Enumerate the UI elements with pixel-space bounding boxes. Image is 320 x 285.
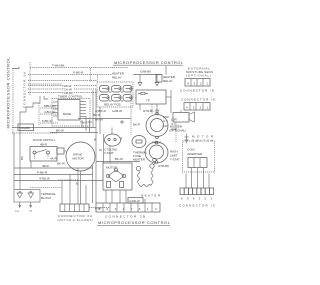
svg-text:MICROPROCESSOR CONTROL: MICROPROCESSOR CONTROL [114,60,184,65]
svg-text:BK-W: BK-W [115,157,123,161]
svg-text:MICROPROCESSOR CONTROL: MICROPROCESSOR CONTROL [98,220,171,225]
svg-text:T-STAT: T-STAT [170,158,180,162]
svg-text:4A-R: 4A-R [50,157,58,161]
svg-text:(MOTOR & BLOWER): (MOTOR & BLOWER) [57,219,93,222]
svg-text:CAB-W: CAB-W [112,109,122,113]
svg-text:TIMER CONTROL: TIMER CONTROL [58,95,83,99]
svg-text:MOTOR: MOTOR [106,166,118,170]
svg-text:(OPTIONAL): (OPTIONAL) [186,74,211,78]
svg-text:BLOCK: BLOCK [41,196,51,200]
svg-text:P-BK-R: P-BK-R [73,71,84,75]
svg-text:CONNECTOR 6A: CONNECTOR 6A [23,72,27,108]
svg-text:4B-R: 4B-R [40,143,48,147]
svg-text:SWITCH: SWITCH [192,139,213,143]
svg-text:BK-W: BK-W [57,162,65,166]
svg-text:(2)R: (2)R [171,118,178,122]
svg-text:TM-R: TM-R [80,121,88,125]
svg-text:MICROPROCESSOR CONTROL: MICROPROCESSOR CONTROL [6,57,11,129]
svg-text:INSERTER: INSERTER [187,152,203,156]
svg-text:RELAY PCB: RELAY PCB [104,103,121,107]
svg-text:CONNECTOR IC: CONNECTOR IC [179,204,216,208]
svg-text:L1: L1 [16,209,20,213]
svg-text:MOTOR: MOTOR [73,157,85,161]
svg-text:HEATER: HEATER [133,158,146,162]
svg-text:BU: BU [20,156,24,160]
svg-text:CAB-BK: CAB-BK [140,70,151,74]
svg-text:HTR-R: HTR-R [143,109,153,113]
svg-text:RELAY: RELAY [112,76,122,80]
svg-text:4-Y: 4-Y [171,122,176,126]
svg-text:1 2 3 4 7 6 1 3: 1 2 3 4 7 6 1 3 [99,207,157,211]
svg-text:P-BK-R: P-BK-R [37,171,48,175]
svg-text:4B-R: 4B-R [42,164,50,168]
svg-text:4-BU-W: 4-BU-W [44,110,55,114]
svg-text:MBU-BK: MBU-BK [44,104,56,108]
svg-text:W: W [99,148,102,152]
svg-text:4-RD-W: 4-RD-W [39,177,50,181]
svg-text:RELAY: RELAY [163,79,173,83]
svg-text:T-WH-BK: T-WH-BK [52,64,65,68]
svg-text:4-RD-W: 4-RD-W [129,199,140,203]
svg-text:DOOR SWITCH: DOOR SWITCH [33,138,55,142]
svg-text:TP: TP [146,99,150,103]
svg-text:HTR-BK: HTR-BK [158,164,169,168]
svg-text:CONNECTOR ID: CONNECTOR ID [180,89,215,93]
svg-text:BASE: BASE [63,112,71,116]
svg-text:N: N [30,209,32,213]
svg-text:CONNECTOR IE: CONNECTOR IE [181,98,215,102]
svg-text:CONNECTOR 6A: CONNECTOR 6A [58,214,92,218]
svg-text:5-BK-W: 5-BK-W [42,119,53,123]
svg-text:BK-R: BK-R [133,123,141,127]
svg-text:T-WH-BK: T-WH-BK [19,126,31,130]
svg-text:B: B [94,138,96,142]
svg-text:HEATER: HEATER [141,194,161,198]
svg-text:T-STAT: T-STAT [104,151,114,155]
svg-text:BK-W: BK-W [56,129,64,133]
svg-text:COIN: COIN [187,148,195,152]
